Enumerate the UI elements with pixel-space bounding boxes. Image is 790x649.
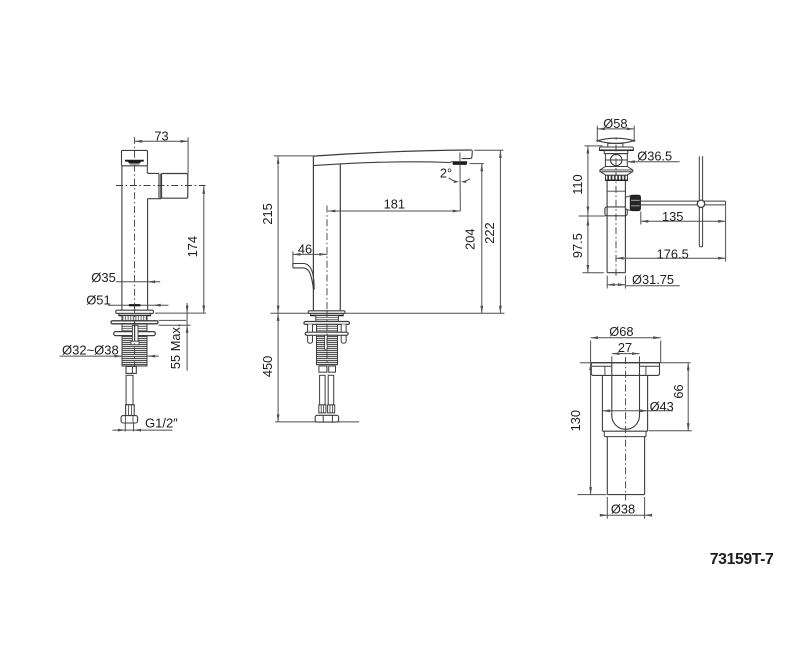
svg-text:66: 66 — [671, 384, 686, 398]
handle centerline — [116, 185, 206, 187]
lift rod slot — [132, 325, 138, 343]
dim 204 extension line — [470, 163, 484, 165]
2 degree angle arcs — [449, 178, 457, 182]
supply hose tube — [126, 375, 133, 405]
middle shank threads top — [316, 316, 339, 322]
middle mounting studs — [308, 324, 347, 343]
washer 1 — [111, 321, 158, 324]
dim 73 line — [135, 140, 189, 142]
svg-text:110: 110 — [570, 174, 585, 194]
dim 204 line — [481, 164, 483, 314]
svg-text:130: 130 — [568, 410, 583, 431]
drain ring — [604, 151, 628, 154]
dim 110 line — [587, 146, 589, 216]
svg-text:Ø35: Ø35 — [91, 270, 116, 285]
middle base flange plate — [308, 311, 345, 314]
dim O35 leader — [116, 281, 160, 283]
dim G1/2 line — [113, 429, 173, 431]
dim 27 line — [612, 353, 640, 355]
dim 110 extension top — [585, 145, 603, 147]
faucet body right edge lower — [147, 199, 149, 311]
knob connector — [625, 196, 630, 210]
tailpipe joint line — [607, 190, 625, 192]
tailpipe bottom edge — [607, 272, 625, 274]
dim 135 line — [641, 220, 726, 222]
lift rod slot crossbar — [131, 341, 139, 345]
mounting nut — [114, 332, 156, 336]
spout underside edge — [313, 162, 449, 166]
spout outlet mark — [125, 160, 144, 164]
svg-text:73159T-7: 73159T-7 — [710, 551, 774, 568]
rod end extension line — [725, 206, 727, 262]
inner cup walls — [612, 363, 640, 430]
lift rod in slot — [134, 322, 136, 341]
fitting tail tube — [606, 437, 608, 495]
middle shank threads lower — [317, 335, 338, 364]
left view: vertical centerline — [134, 137, 136, 372]
lever handle profile — [293, 264, 314, 290]
middle body front edge — [312, 156, 314, 310]
drain valve housing — [605, 154, 627, 167]
svg-text:55 Max.: 55 Max. — [168, 324, 183, 370]
dim O31.75 extension lines — [606, 276, 608, 289]
dim 55 Max extension lines — [159, 319, 187, 321]
svg-text:174: 174 — [185, 236, 200, 257]
svg-text:450: 450 — [260, 356, 275, 377]
drain castellated ring — [606, 175, 628, 180]
dim 215 extension line top — [274, 155, 314, 157]
dim O31.75 line — [607, 284, 625, 286]
faucet cap (spout head) — [122, 150, 148, 165]
middle base centerline overlay — [326, 310, 328, 375]
middle washer — [304, 322, 350, 325]
drain flare skirt — [600, 167, 633, 172]
svg-text:Ø38: Ø38 — [611, 502, 635, 517]
dim O51 leader — [108, 304, 169, 306]
dim 66 bottom extension line — [649, 430, 692, 432]
dim O32-O38 arrow right — [148, 355, 159, 357]
fitting body bottom line — [602, 430, 647, 432]
deck line middle — [271, 312, 505, 314]
svg-text:Ø51: Ø51 — [86, 293, 111, 308]
dim 450 line — [277, 313, 279, 422]
left base centerline overlay — [134, 306, 136, 372]
brim shoulder lines — [592, 365, 611, 367]
dim 135 extension line — [640, 212, 642, 225]
fitting brim — [591, 363, 659, 376]
pivot nut band — [605, 207, 627, 216]
svg-text:G1/2″: G1/2″ — [145, 416, 178, 431]
dim 46 line — [293, 253, 327, 255]
shank knurl below flange — [122, 316, 147, 321]
dim 27 extension lines — [611, 356, 613, 362]
shared top extension line — [580, 362, 691, 364]
drain tailpipe — [606, 180, 608, 272]
drain top flange — [600, 147, 634, 150]
handle body — [162, 174, 188, 199]
middle view: spout top edge — [313, 150, 471, 156]
popup cap lens disc — [597, 138, 634, 143]
middle shank threads upper — [317, 324, 338, 332]
dim O58 extension lines — [596, 126, 598, 143]
brim inner step walls — [604, 366, 606, 375]
svg-text:Ø43: Ø43 — [650, 399, 674, 414]
svg-text:2°: 2° — [440, 165, 452, 180]
svg-text:Ø68: Ø68 — [609, 324, 633, 339]
svg-text:222: 222 — [482, 222, 497, 243]
dim O38 extension lines — [606, 497, 608, 519]
middle nut — [305, 332, 348, 335]
hose ferrules — [319, 405, 326, 413]
shank threads lower — [122, 336, 147, 366]
handle neck top line — [147, 172, 159, 174]
knurled knob — [630, 195, 640, 210]
dim 55 Max line — [186, 303, 188, 371]
middle rod slot — [325, 335, 328, 349]
dim 73 extension line — [187, 137, 189, 173]
dim 181 line — [328, 210, 460, 212]
dim 46 extension line — [292, 251, 294, 263]
hose ferrule — [126, 405, 135, 416]
svg-text:181: 181 — [384, 196, 405, 211]
svg-text:Ø32~Ø38: Ø32~Ø38 — [62, 343, 119, 358]
dim O32-O38 leader left — [60, 355, 122, 357]
deck extension line right — [155, 312, 206, 314]
dim 222 line — [499, 150, 501, 313]
svg-text:135: 135 — [662, 209, 683, 224]
dim 97.5 line — [587, 216, 589, 273]
dim 110/97.5 junction extension — [579, 215, 606, 217]
aerator dark band — [452, 161, 467, 165]
base flange plate — [116, 310, 154, 313]
G1/2 nut — [121, 416, 138, 423]
fitting upper body — [601, 375, 603, 431]
faucet body left edge — [121, 166, 123, 310]
svg-text:27: 27 — [618, 340, 632, 355]
dim 130 bottom extension — [577, 494, 606, 496]
G1/2 extension lines — [124, 424, 126, 432]
handle stem lines — [158, 174, 160, 199]
handle neck bottom line — [148, 198, 162, 200]
shank threads upper — [122, 324, 147, 332]
dim O43 line — [602, 410, 672, 412]
spout outlet axis line — [459, 153, 461, 212]
dim 130 line — [590, 363, 592, 495]
cap apex tick — [615, 137, 617, 139]
dim 176.5 line — [616, 257, 726, 259]
spout tip outline — [462, 150, 473, 159]
O51 center mark dash — [129, 304, 141, 306]
svg-text:215: 215 — [260, 203, 275, 224]
drain cone — [601, 172, 633, 176]
svg-text:Ø36.5: Ø36.5 — [637, 148, 672, 163]
dim O36.5 leader — [628, 161, 680, 163]
middle body centerline — [326, 206, 328, 314]
svg-text:97.5: 97.5 — [570, 233, 585, 258]
hose nipples — [319, 366, 327, 372]
dim 174 line — [203, 186, 205, 313]
fitting neck — [603, 431, 605, 436]
hose end nuts — [315, 415, 338, 422]
base flange lip — [119, 313, 151, 315]
dim O58 line — [597, 128, 634, 130]
hex adapter — [126, 366, 136, 373]
dim O68 line — [591, 337, 661, 339]
drain fitting centerline — [625, 357, 627, 501]
svg-text:204: 204 — [463, 229, 478, 250]
dim O68 extension lines — [590, 341, 592, 363]
middle base flange lip — [311, 314, 344, 316]
svg-text:176.5: 176.5 — [657, 246, 689, 261]
drain centerline — [615, 145, 617, 279]
dim 215 line — [277, 156, 279, 313]
lift rod — [699, 156, 702, 247]
dim 450 bottom extension line — [275, 421, 359, 423]
dim O38 line — [601, 514, 651, 516]
tail tube bottom edge — [607, 494, 644, 496]
cap stem — [608, 143, 623, 147]
housing pivot circle — [611, 154, 622, 165]
dim 222 extension line — [474, 149, 503, 151]
housing pivot axis line — [605, 159, 627, 161]
middle body rear edge — [339, 164, 341, 311]
hoses — [320, 375, 326, 405]
dim 66 line — [687, 363, 689, 431]
horizontal rod — [640, 200, 725, 202]
ball joint — [697, 200, 704, 207]
dim 97.5 bottom extension — [582, 272, 604, 274]
faucet body right edge upper — [146, 166, 148, 172]
svg-text:Ø31.75: Ø31.75 — [632, 272, 674, 287]
